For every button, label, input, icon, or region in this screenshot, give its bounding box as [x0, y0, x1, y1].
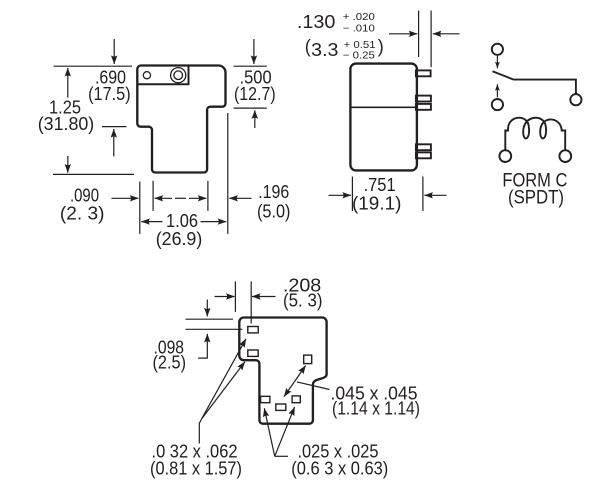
svg-text:+ 0.51: + 0.51 [344, 40, 376, 51]
svg-text:(5. 3): (5. 3) [283, 291, 323, 311]
.130 right arrow pointing left [433, 33, 460, 35]
.500 bottom extension line [234, 107, 267, 109]
coil terminal left circle [499, 150, 511, 162]
extension line bottom x139.8 [139, 182, 141, 234]
case parting line [350, 106, 417, 108]
coil [505, 118, 565, 150]
pin 4 [416, 144, 431, 150]
pad E (.025 x .025) [276, 404, 286, 410]
svg-text:(26.9): (26.9) [156, 229, 203, 249]
.208 right extension line [250, 281, 252, 323]
relay footprint outline (bottom view) [239, 318, 326, 424]
NC terminal circle [492, 44, 503, 55]
double arrow between pad C and pad E [284, 366, 306, 397]
1.06 left arrow [141, 221, 162, 223]
.751 left arrow pointing right [329, 194, 352, 196]
svg-text:(1.14 x 1.14): (1.14 x 1.14) [332, 398, 420, 418]
svg-text:.090: .090 [70, 185, 99, 205]
pad D (.025 x .025) [261, 396, 270, 402]
leader from .025 label [275, 455, 288, 457]
small mounting hole [143, 72, 150, 79]
svg-text:+ .020: + .020 [343, 12, 375, 23]
pad F (.025 x .025) [292, 396, 300, 403]
.751 right arrow pointing left [424, 194, 446, 196]
pad A (.032 x .062) [248, 327, 258, 333]
svg-text:(5.0): (5.0) [257, 201, 290, 221]
svg-text:− .010: − .010 [343, 24, 375, 35]
svg-text:(0.81 x 1.57): (0.81 x 1.57) [150, 459, 242, 479]
pad C (.045 x .045) [304, 355, 312, 364]
up arrow to .690 reference [113, 129, 115, 156]
common terminal circle [492, 99, 503, 110]
svg-text:(19.1): (19.1) [352, 193, 401, 213]
coil terminal outer circle [171, 68, 186, 83]
terminal block rectangle [138, 66, 189, 84]
coil terminal right circle [559, 150, 571, 162]
relay body outline (front view) [350, 64, 417, 171]
svg-text:(2.5): (2.5) [153, 353, 187, 373]
down arrow above .500 [253, 39, 255, 64]
.196 arrow pointing left [229, 197, 251, 199]
wire to NO terminal [514, 80, 576, 95]
NO terminal circle [570, 94, 581, 105]
.690 lower reference line [102, 126, 127, 128]
dimension line 1.25 vertical double arrow [67, 68, 69, 98]
common contact arrow [496, 84, 498, 97]
svg-text:): ) [378, 37, 384, 57]
extension line pin root [418, 11, 420, 58]
.208 right arrow pointing left [252, 296, 276, 298]
leader from .045 label [297, 382, 330, 390]
extension line bottom left [53, 173, 134, 175]
svg-text:.751: .751 [364, 175, 396, 195]
svg-text:3.3: 3.3 [311, 40, 338, 60]
.208 left extension line [234, 281, 236, 312]
leader arrow to pad F [275, 407, 295, 456]
inner arrow pointing right at x208 [189, 197, 206, 199]
NC contact arrow [496, 56, 498, 68]
extension line bottom x207.9 [207, 181, 209, 211]
svg-text:.130: .130 [297, 12, 336, 32]
.098 up arrow with foot [198, 334, 207, 358]
pin 3 [416, 104, 431, 110]
extension line top left [54, 65, 133, 67]
.098 bottom extension line [186, 328, 243, 330]
.130 left arrow pointing right [389, 33, 417, 35]
svg-text:(31.80): (31.80) [38, 114, 95, 134]
coil terminal inner circle [174, 71, 183, 80]
down arrow above .690 [113, 39, 115, 64]
svg-text:(12.7): (12.7) [234, 84, 276, 104]
.098 down arrow [206, 300, 208, 317]
middle dash of dimension row [175, 197, 186, 199]
.751 right extension line [422, 177, 424, 212]
pin 5 [416, 152, 431, 158]
pin 1 (top) [416, 70, 431, 76]
extension line bottom x153.1 [152, 181, 154, 211]
svg-text:(2. 3): (2. 3) [60, 203, 105, 223]
svg-text:.196: .196 [258, 182, 289, 202]
svg-text:(17.5): (17.5) [88, 84, 131, 104]
svg-text:(: ( [305, 37, 311, 57]
relay body outline (side view) [137, 66, 225, 173]
.208 left arrow pointing right [215, 296, 235, 298]
extension line pin tip [430, 11, 432, 68]
leader arrow to pad A [202, 339, 246, 419]
.098 top extension line [186, 318, 234, 320]
.751 left extension line [351, 177, 353, 212]
.090 arrow pointing right [112, 197, 139, 199]
pin 2 [416, 96, 431, 102]
leader arrow to pad B [202, 362, 245, 419]
inner arrow pointing left at x153 [155, 197, 172, 199]
svg-text:(0.6 3 x 0.63): (0.6 3 x 0.63) [291, 459, 388, 479]
svg-text:− 0.25: − 0.25 [343, 51, 375, 62]
up arrow to .500 bottom reference [254, 110, 256, 128]
switch blade [493, 71, 514, 79]
svg-text:(SPDT): (SPDT) [508, 188, 564, 209]
leader from .032 label [199, 419, 202, 444]
leader arrow to pad D [264, 408, 274, 456]
.500 top extension line [234, 65, 267, 67]
1.06 right arrow [201, 221, 227, 223]
extension line right x227.8 [227, 113, 229, 234]
pad B (.032 x .062) [248, 350, 258, 356]
